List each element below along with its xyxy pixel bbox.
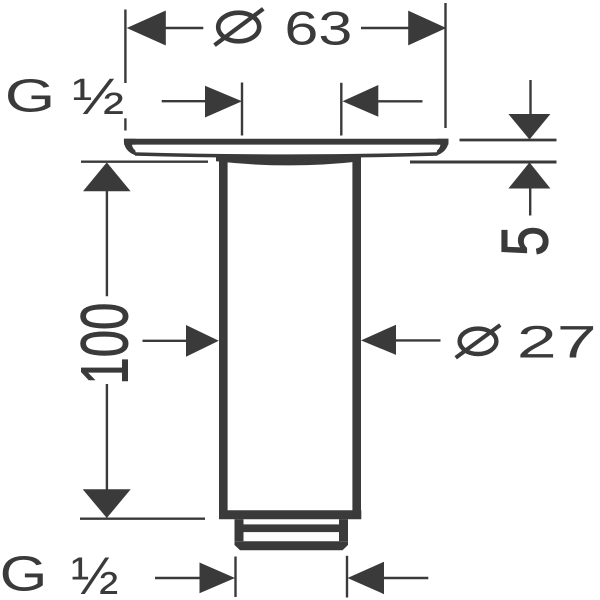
- dimG12bot left tail: [155, 577, 200, 579]
- dim100 top extension line: [81, 160, 208, 162]
- dim100 line lower: [106, 384, 108, 490]
- flange right tip: [437, 139, 449, 156]
- flange left tip: [124, 139, 136, 156]
- pipe bottom edge: [219, 510, 361, 519]
- pipe right wall: [352, 154, 361, 519]
- dim27 left arrow: [186, 325, 219, 357]
- svg-text:27: 27: [517, 317, 597, 368]
- thread ridge: [235, 524, 349, 532]
- dim5 down arrow: [508, 114, 550, 140]
- label diameter symbol of 27: [456, 325, 501, 358]
- svg-text:G: G: [0, 546, 47, 600]
- dim63 right arrow: [408, 11, 446, 46]
- dim63 right tail: [361, 27, 409, 29]
- flange top line: [124, 139, 448, 145]
- dim27 right arrow: [361, 325, 396, 355]
- dimG12bot right tail: [384, 577, 429, 579]
- thread right edge: [339, 519, 348, 541]
- dimG12top left tail: [162, 100, 206, 102]
- dimG12bot right extension line: [346, 556, 348, 598]
- flange lower edge between pipe walls: [216, 154, 361, 165]
- dim5 upper line: [529, 80, 531, 115]
- svg-text:63: 63: [284, 2, 352, 55]
- dimG12top left arrow: [205, 86, 242, 118]
- dim63 left arrow: [127, 11, 166, 46]
- dim5 bottom reference line: [410, 161, 557, 164]
- thread bottom bar: [235, 541, 349, 550]
- svg-text:G: G: [5, 69, 56, 121]
- svg-text:½: ½: [71, 546, 119, 600]
- dim63 left tail: [165, 27, 203, 29]
- dimG12top right tail: [378, 100, 423, 102]
- dim5 lower line: [529, 188, 531, 216]
- dim63 left extension line: [124, 10, 126, 84]
- dim5 up arrow: [508, 162, 550, 188]
- dim63 right extension line: [444, 3, 446, 128]
- dim100 up arrow: [83, 162, 131, 191]
- pipe left wall: [219, 154, 228, 519]
- dim27 left tail: [143, 340, 187, 342]
- dimG12bot left extension line: [234, 557, 236, 598]
- svg-text:½: ½: [72, 68, 124, 125]
- dim100 bottom extension line: [80, 518, 205, 520]
- flange underside: [135, 154, 438, 156]
- dimG12bot right arrow: [348, 562, 385, 595]
- dimG12top right arrow: [343, 85, 379, 117]
- svg-text:100: 100: [68, 303, 142, 385]
- dim27 right tail: [396, 339, 441, 341]
- dimG12bot left arrow: [200, 563, 236, 594]
- dim100 down arrow: [83, 489, 131, 518]
- dimG12top right extension line: [340, 83, 342, 136]
- label diameter symbol of 63: [215, 9, 264, 45]
- thread left edge: [235, 519, 244, 541]
- svg-text:5: 5: [487, 226, 561, 256]
- dim5 top reference line: [460, 139, 557, 142]
- dim100 line upper: [106, 190, 108, 296]
- dimG12top left extension line: [241, 83, 243, 136]
